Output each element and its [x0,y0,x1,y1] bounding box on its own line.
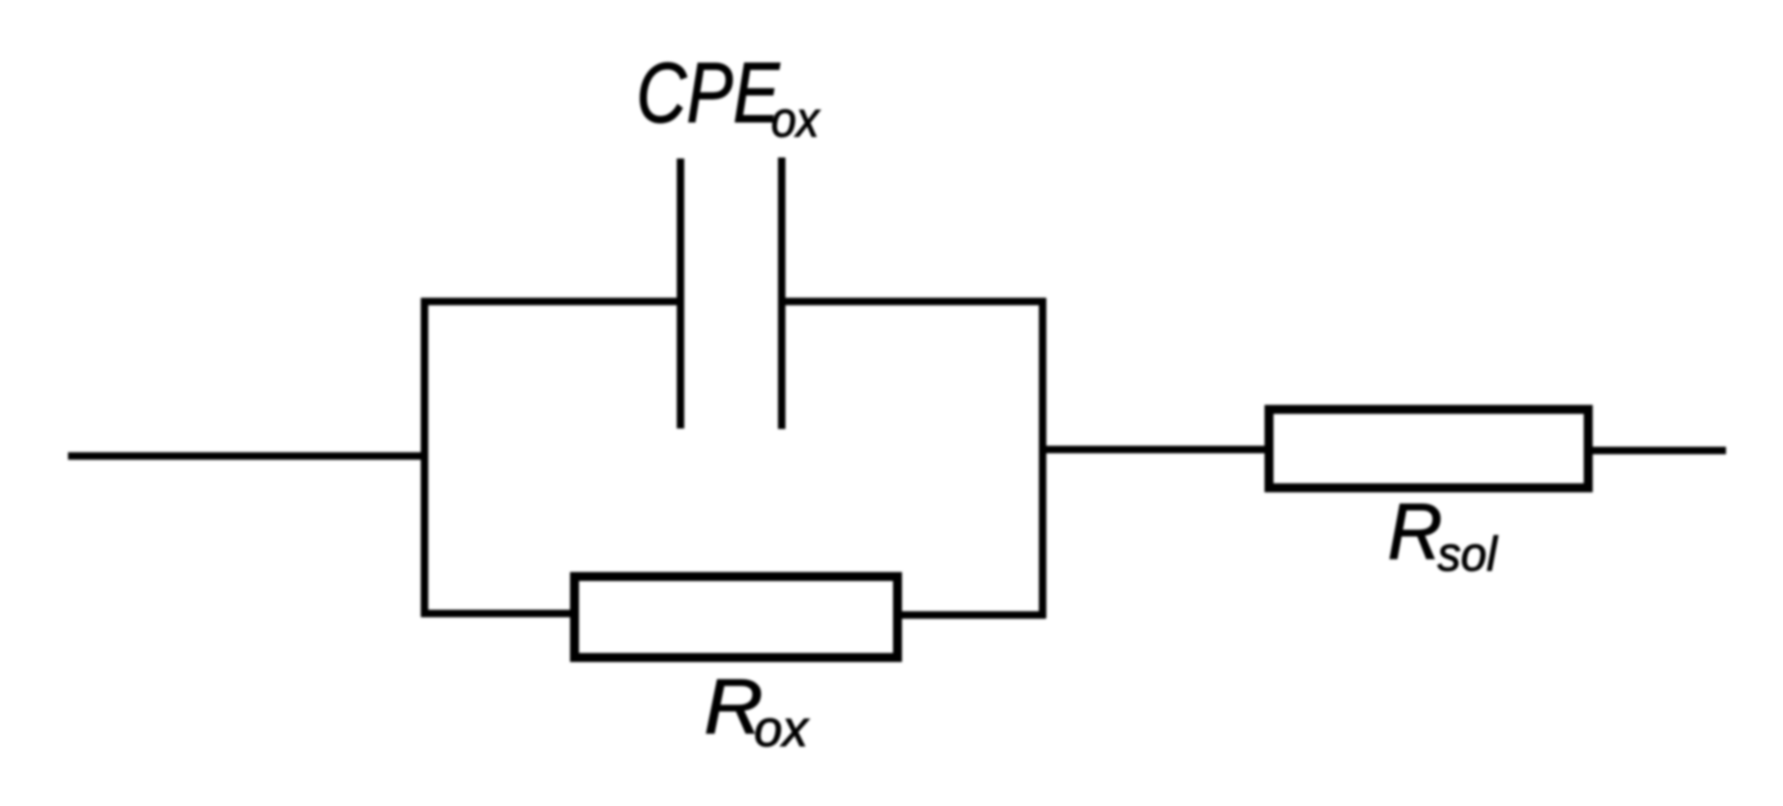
wire bottom branch right segment [897,611,1046,619]
resistor Rox body [575,577,898,658]
label Rsol main text [1388,486,1443,576]
wire top branch left segment [421,298,684,306]
capacitor CPEox left plate [677,159,685,429]
label CPEox main text [636,47,780,141]
capacitor CPEox right plate [778,158,786,430]
wire middle connecting segment [1039,446,1269,454]
svg-text:sol: sol [1438,528,1499,582]
svg-text:ox: ox [754,700,809,757]
wire bottom branch left segment [421,610,575,618]
label Rsol subscript [1438,528,1499,582]
svg-text:R: R [1388,486,1443,576]
wire right lead [1588,447,1726,455]
wire top branch right segment [778,298,1046,306]
wire right vertical of parallel loop [1039,298,1047,618]
svg-text:CPE: CPE [636,47,780,141]
wire left vertical of parallel loop [421,298,429,617]
label Rox main text [704,663,763,750]
resistor Rsol body [1269,409,1588,487]
label CPEox subscript [771,93,821,148]
svg-text:ox: ox [771,93,821,148]
label Rox subscript [754,700,809,757]
wire left lead [68,452,428,460]
